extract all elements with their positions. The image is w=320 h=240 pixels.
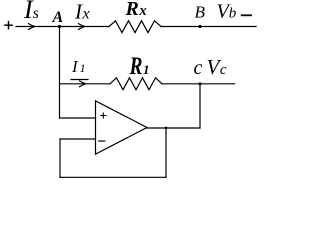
wire feedback vertical from output: [165, 128, 167, 177]
junction dot at arrow Ix tip: [82, 25, 84, 27]
wire op-amp plus input horizontal: [60, 117, 96, 119]
junction dot at arrow Is tip: [32, 25, 34, 27]
resistor Rx: [109, 21, 161, 33]
arrowhead Ix current arrow: [79, 24, 85, 30]
wire middle left segment: [60, 83, 111, 85]
node A junction dot: [58, 25, 61, 28]
wire node c vertical down to op-amp output: [199, 84, 201, 128]
node c junction dot: [198, 82, 201, 85]
arrowhead Is current arrow: [29, 24, 35, 30]
wire top left segment: [16, 26, 109, 28]
wire node A vertical down to op-amp plus input: [59, 27, 61, 119]
output node junction dot: [165, 127, 168, 130]
wire middle right segment: [162, 83, 235, 85]
svg-text:1: 1: [143, 62, 150, 77]
wire op-amp output: [147, 127, 200, 129]
svg-text:B: B: [195, 3, 206, 22]
plus sign left source terminal: [5, 22, 12, 29]
svg-text:R: R: [129, 53, 143, 80]
wire feedback bottom horizontal: [60, 176, 166, 178]
node B junction dot: [198, 25, 201, 28]
wire feedback left vertical: [59, 139, 61, 177]
underline of I1 label: [71, 79, 88, 81]
junction dot at arrow I1 tip: [83, 83, 85, 85]
op-amp minus input marking: [99, 140, 105, 142]
op-amp U1 triangle: [96, 101, 148, 154]
wire top right segment: [161, 26, 256, 28]
minus sign right of Vb: [242, 14, 251, 16]
svg-text:A: A: [52, 9, 64, 26]
svg-text:Rx: Rx: [125, 0, 147, 20]
resistor R1: [110, 78, 162, 90]
op-amp plus input marking: [101, 113, 106, 118]
arrowhead I1 current arrow: [80, 81, 86, 87]
wire op-amp minus input horizontal: [60, 138, 96, 140]
svg-text:c: c: [194, 57, 203, 79]
